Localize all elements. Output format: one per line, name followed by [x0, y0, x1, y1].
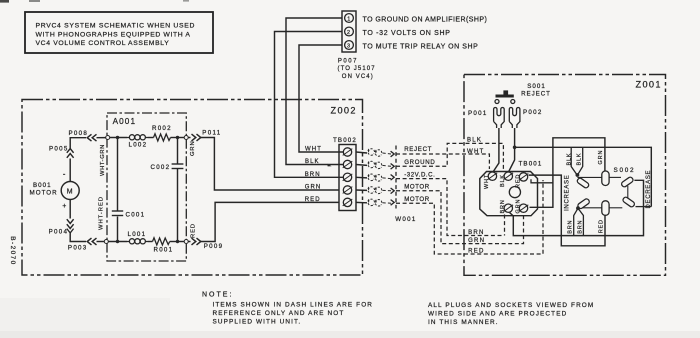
wire motor top to P005 [69, 159, 71, 182]
contact right bottom (angled) [622, 196, 635, 208]
pushbutton switch S001 [496, 95, 514, 98]
plug P008 chevrons (left) [87, 134, 91, 141]
svg-text:A001: A001 [113, 117, 137, 126]
capacitor C002 (vertical branch, right) [177, 138, 179, 164]
svg-text:NOTE:: NOTE: [202, 292, 233, 299]
svg-text:-32V.D.C.: -32V.D.C. [404, 171, 435, 178]
contact GRN (top center) [602, 171, 609, 186]
svg-text:C002: C002 [151, 164, 171, 171]
svg-text:SUPPLIED WITH UNIT.: SUPPLIED WITH UNIT. [213, 319, 302, 326]
svg-text:INCREASE: INCREASE [565, 175, 571, 211]
svg-text:BLK: BLK [500, 174, 506, 187]
terminal circles A001 edges [106, 136, 110, 140]
link right-bottom contact to bracket [636, 206, 652, 208]
svg-text:RED: RED [305, 197, 321, 203]
node BRN (S002 lower) [576, 206, 580, 210]
svg-text:WHT: WHT [305, 147, 322, 153]
S001 contact circles [495, 100, 499, 104]
wire P009 to TB002 RED terminal [201, 202, 339, 241]
svg-text:TO GROUND ON AMPLIFIER(SHP): TO GROUND ON AMPLIFIER(SHP) [363, 17, 488, 24]
svg-text:IN THIS MANNER.: IN THIS MANNER. [428, 319, 499, 326]
contact right top (angled) [621, 176, 634, 188]
svg-text:W001: W001 [395, 216, 416, 223]
wire stub + curls + arrow row 4 (GRN/MOTOR) [356, 187, 394, 194]
wire MOTOR to GRN row to TB001 BRN drop... [396, 191, 524, 244]
svg-text:R002: R002 [152, 125, 172, 132]
svg-text:S002: S002 [614, 167, 636, 174]
scan tone: bottom-left wash [0, 298, 170, 338]
svg-text:WHT-RED: WHT-RED [99, 196, 105, 230]
wire motor bottom to P004 [69, 200, 71, 219]
svg-text:B001: B001 [33, 182, 52, 189]
wire P004 down and over to P003 [70, 233, 86, 242]
wire stub + curls + arrow row 3 (BRN/-32V) [356, 174, 394, 181]
note text bottom left [202, 292, 373, 326]
junction dots A001 [116, 136, 119, 139]
svg-text:RED: RED [191, 223, 197, 238]
rail: S002 upper row link [577, 176, 601, 178]
title block [25, 12, 213, 53]
contact BRN (left bottom, angled) [577, 198, 590, 210]
wire BLK pair down to S002 node [571, 147, 577, 175]
svg-text:ITEMS SHOWN IN DASH LINES ARE: ITEMS SHOWN IN DASH LINES ARE FOR [213, 301, 374, 308]
svg-text:GRN: GRN [468, 237, 485, 244]
assembly A001 dash-dot box [107, 113, 186, 261]
plug P002 (fork lug) [509, 107, 520, 128]
dashed harness wires [396, 143, 543, 254]
svg-text:GRN: GRN [305, 185, 322, 191]
svg-text:BLK: BLK [577, 153, 583, 166]
wire WHT: P007 pin3 to TB002-1 [299, 45, 343, 152]
cable W001: connector curls and arrows for 5 wires [356, 146, 396, 209]
TB001 screw BRN [504, 204, 514, 212]
svg-text:B-2070: B-2070 [9, 236, 16, 265]
assembly Z002 outer dash-dot box [22, 100, 363, 276]
TB001 center hole [509, 187, 520, 198]
svg-text:GROUND: GROUND [404, 159, 435, 166]
connector P007 [342, 11, 356, 52]
svg-text:RED: RED [468, 247, 484, 254]
wire GROUND to BLK row to TB001 [396, 143, 503, 169]
inductor L001 [127, 239, 148, 244]
wire REJECT/WHT to TB001 [396, 154, 489, 169]
svg-text:R001: R001 [154, 247, 174, 254]
svg-text:WIRED SIDE AND ARE PROJECTED: WIRED SIDE AND ARE PROJECTED [428, 311, 567, 318]
inductor L002 [127, 135, 148, 140]
TB001 screw BLK [504, 172, 514, 180]
svg-text:P009: P009 [204, 243, 224, 250]
svg-text:1: 1 [347, 16, 350, 22]
svg-text:REJECT: REJECT [521, 90, 551, 97]
svg-text:(TO J5107: (TO J5107 [338, 66, 376, 72]
svg-text:P005: P005 [49, 146, 69, 153]
wire P011 to TB002 GRN terminal [201, 138, 339, 191]
svg-text:GRN: GRN [190, 140, 196, 156]
svg-text:WITH PHONOGRAPHS EQUIPPED WITH: WITH PHONOGRAPHS EQUIPPED WITH A [36, 32, 191, 39]
wire stub + curls + arrow row 5 (RED/MOTOR) [356, 199, 394, 206]
plug P001 (fork lug) [494, 107, 505, 128]
svg-text:ON VC4): ON VC4) [342, 74, 374, 80]
svg-text:L002: L002 [129, 142, 148, 149]
stub from bus to TB001 edge [531, 179, 553, 183]
svg-text:MOTOR: MOTOR [30, 190, 58, 197]
svg-text:M: M [67, 189, 73, 196]
TB002 screw 2 (BLK) [343, 160, 353, 168]
TB002 screw 4 (GRN) [343, 186, 353, 194]
TB001 screw RED [519, 173, 529, 181]
TB002 screw 1 (WHT) [343, 148, 353, 156]
svg-text:REJECT: REJECT [404, 146, 432, 153]
junction arrow on BLK wire [327, 164, 331, 167]
svg-text:P002: P002 [523, 109, 543, 116]
scan artifact marks top edge [0, 0, 9, 3]
plug P003 chevrons (left) [87, 238, 91, 245]
svg-text:TB002: TB002 [333, 137, 357, 144]
terminal board TB001 (octagon) [480, 172, 538, 216]
svg-text:BRN: BRN [500, 199, 506, 213]
svg-text:PRVC4 SYSTEM SCHEMATIC WHEN US: PRVC4 SYSTEM SCHEMATIC WHEN USED [36, 22, 196, 29]
svg-text:BRN: BRN [305, 172, 321, 178]
svg-text:WHT: WHT [467, 148, 484, 155]
wire BRN: P007 pin2 to TB002-3 [275, 32, 344, 178]
wire: TB001-RED screw to S002 RED contact [529, 175, 606, 246]
plug P011 chevrons (right) and wire to TB002 GRN [188, 137, 190, 139]
svg-text:TB001: TB001 [519, 160, 543, 167]
node BLK (S002 upper) [576, 173, 580, 177]
TB002 screw 3 (BRN) [343, 173, 353, 181]
svg-text:REFERENCE ONLY AND ARE NOT: REFERENCE ONLY AND ARE NOT [213, 310, 345, 317]
resistor R001 [153, 238, 170, 245]
svg-text:DECREASE: DECREASE [646, 170, 652, 209]
svg-text:GRN: GRN [516, 199, 522, 214]
svg-text:P003: P003 [68, 245, 88, 252]
svg-text:P011: P011 [202, 130, 221, 137]
svg-text:-: - [63, 170, 66, 179]
wire: A001 bottom rail [108, 241, 127, 243]
bus: TB001-BRN to S002 lower contacts (bottom bus) [510, 180, 644, 235]
wire stub + curls + arrow row 1 (WHT/REJECT) [356, 149, 394, 157]
svg-text:P008: P008 [69, 130, 89, 137]
svg-text:P004: P004 [49, 229, 69, 236]
svg-text:GRN: GRN [598, 150, 604, 165]
svg-text:BRN: BRN [577, 220, 583, 234]
svg-text:BRN: BRN [568, 220, 574, 234]
contact BLK (left top, angled) [576, 177, 589, 189]
wire -32V.D.C. to BRN row [396, 179, 504, 236]
svg-text:TO MUTE TRIP RELAY ON SHP: TO MUTE TRIP RELAY ON SHP [363, 43, 479, 50]
W001 bundle line [395, 146, 397, 209]
wire stub + curls + arrow row 2 (BLK/GROUND) [356, 161, 394, 169]
svg-text:C001: C001 [126, 212, 146, 219]
svg-text:BLK: BLK [567, 153, 573, 166]
svg-text:RED: RED [516, 174, 522, 188]
svg-text:BRN: BRN [468, 229, 484, 236]
plug P005 chevrons (up) [67, 154, 74, 158]
wire MOTOR2 to RED row [396, 180, 543, 254]
rail: S002 lower row link [579, 207, 602, 209]
plug P004 chevrons (down) [67, 219, 74, 223]
wire: A001 top rail [110, 137, 127, 139]
svg-text:BLK: BLK [305, 159, 320, 165]
svg-text:RED: RED [598, 219, 604, 233]
svg-text:P007: P007 [338, 59, 358, 65]
TB001 screw WHT [488, 172, 498, 180]
junction node on P002 stem [513, 146, 517, 150]
svg-text:WHT-GRN: WHT-GRN [100, 144, 106, 176]
dashed drop TB001 BRN screw [504, 215, 506, 236]
wire BRN pair from node down to bus [574, 208, 578, 235]
TB002 screw 5 (RED) [343, 198, 353, 206]
note text bottom right [428, 302, 594, 326]
capacitor C001 (vertical branch, left) [117, 138, 119, 211]
wire P005 up and over to P008 [70, 138, 86, 149]
svg-text:+: + [62, 203, 66, 210]
svg-text:L001: L001 [128, 231, 147, 238]
svg-text:P001: P001 [468, 110, 488, 117]
svg-text:ALL PLUGS AND SOCKETS VIEWED F: ALL PLUGS AND SOCKETS VIEWED FROM [428, 302, 594, 309]
svg-text:MOTOR: MOTOR [404, 196, 430, 203]
svg-text:3: 3 [347, 43, 350, 49]
plug P009 chevrons (right) and wire to TB002 RED [188, 241, 190, 243]
wire BLK: P007 pin1 to TB002-2 [286, 18, 343, 165]
resistor R002 [154, 134, 171, 141]
svg-text:Z001: Z001 [636, 80, 662, 90]
motor B001 [61, 182, 79, 200]
svg-text:Z002: Z002 [331, 106, 357, 116]
link: S002 right contacts inner tips [627, 186, 629, 198]
svg-text:WHT: WHT [484, 174, 490, 189]
svg-text:VC4 VOLUME CONTROL ASSEMBLY: VC4 VOLUME CONTROL ASSEMBLY [36, 40, 170, 47]
assembly Z001 dash-dot box [464, 75, 666, 276]
svg-text:TO -32 VOLTS ON SHP: TO -32 VOLTS ON SHP [363, 30, 451, 37]
svg-text:MOTOR: MOTOR [404, 184, 430, 191]
wire P002 stem to junction and TB001 BLK [509, 128, 515, 172]
terminal board TB002 [339, 145, 356, 211]
contact RED (bottom center) [602, 201, 609, 216]
svg-text:BLK: BLK [467, 137, 482, 144]
bus: S002 GRN contact to TB001-GRN screw [530, 138, 605, 208]
svg-text:2: 2 [347, 30, 350, 36]
bus: P002/S001 to S002 BLK contacts and right edge [515, 147, 652, 206]
TB001 screw GRN [519, 204, 529, 212]
svg-text:S001: S001 [527, 83, 546, 90]
wire P001 stem to TB001 WHT [493, 128, 499, 172]
